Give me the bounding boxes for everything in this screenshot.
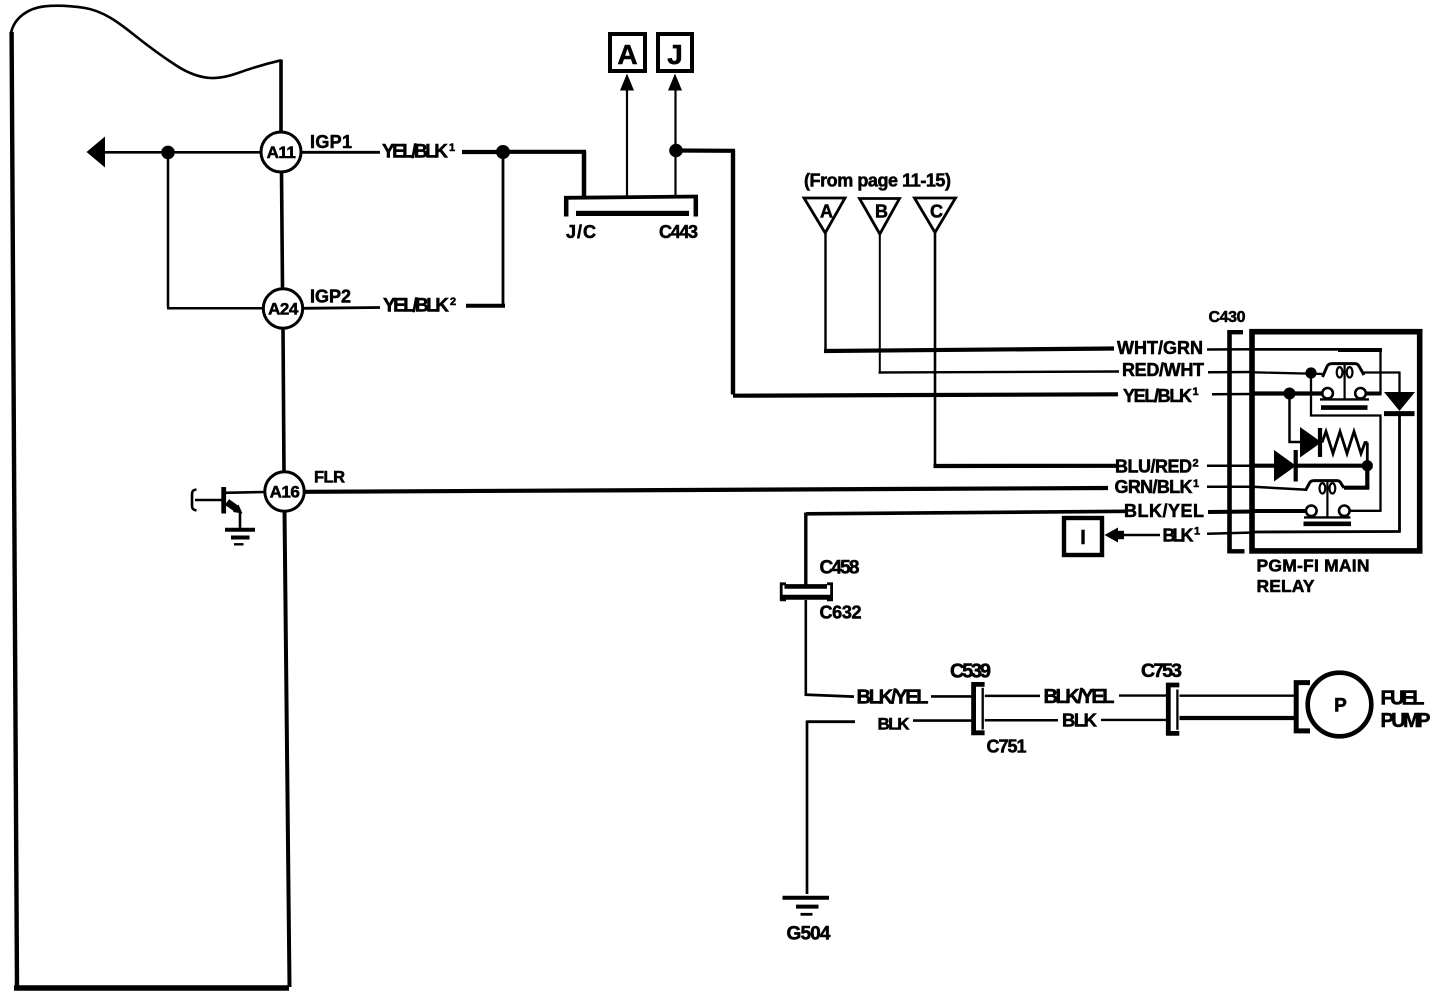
svg-text:PUMP: PUMP [1381, 710, 1431, 732]
svg-text:FUEL: FUEL [1381, 688, 1425, 710]
wire D3 cathode down to BLK1 row [1398, 415, 1401, 533]
svg-text:BLK: BLK [1163, 526, 1194, 546]
wire junction down to diode D1 [1288, 394, 1291, 444]
heavy relay internal wire YEL/BLK1 row [1253, 391, 1323, 395]
diode D3 (down) [1384, 392, 1415, 414]
wire YEL/BLK1 label to junction [462, 150, 500, 154]
svg-text:YEL/BLK: YEL/BLK [1123, 386, 1192, 406]
wire down from WHT/GRN to relay-1 contact [1379, 350, 1381, 394]
connector box I (destination) [1064, 518, 1102, 555]
svg-text:A16: A16 [270, 483, 300, 502]
resistor R1 zigzag [1322, 432, 1368, 454]
terminal A11 [261, 132, 301, 172]
svg-text:C632: C632 [820, 603, 862, 623]
junction dot coil-1 left [1305, 367, 1316, 378]
wire C753 to fuel pump (BLK/YEL) [1180, 695, 1297, 697]
relay-1 fixed contact bar [1320, 398, 1369, 400]
wire from arrow to terminal A11 [104, 151, 262, 154]
svg-text:BLU/RED: BLU/RED [1115, 457, 1192, 477]
wire from J/C up to box A [626, 89, 628, 196]
svg-text:J: J [667, 39, 683, 70]
heavy BLK/YEL wire from relay row to drop corner [806, 511, 1126, 514]
svg-text:C443: C443 [659, 222, 698, 242]
ground symbol G504 [783, 898, 830, 915]
svg-text:C539: C539 [950, 661, 991, 683]
svg-text:GRN/BLK: GRN/BLK [1115, 477, 1193, 497]
svg-text:A: A [617, 39, 637, 70]
svg-text:BLK: BLK [878, 715, 911, 734]
relay-2 coil [1306, 481, 1345, 494]
heavy wire junction to right corner [676, 148, 735, 153]
heavy YEL/BLK1 wire across to relay label [733, 394, 1118, 395]
inline connector C753 [1168, 685, 1179, 733]
connector C430 bracket [1230, 330, 1245, 554]
svg-text:1: 1 [1193, 386, 1199, 398]
svg-text:BLK/YEL: BLK/YEL [857, 687, 929, 709]
terminal A24 [263, 289, 302, 328]
off-page triangle C [915, 198, 956, 233]
svg-text:FLR: FLR [314, 469, 345, 487]
svg-text:A11: A11 [267, 143, 296, 162]
heavy wire down to YEL/BLK1 relay feed [731, 150, 735, 395]
svg-text:B: B [875, 202, 888, 222]
wire from triangle C down [934, 233, 937, 467]
wire emitter to ground [239, 511, 242, 528]
svg-text:C751: C751 [987, 737, 1027, 757]
svg-text:1: 1 [1193, 478, 1199, 490]
svg-text:2: 2 [1193, 458, 1199, 470]
transistor Q1 base input bracket [192, 490, 197, 511]
wire junction down and across (coil-1 left to relay-2 contact) [1310, 373, 1312, 417]
junction dot IGP1/IGP2 tie point [496, 145, 510, 159]
fuel pump P motor [1308, 673, 1372, 737]
svg-text:WHT/GRN: WHT/GRN [1117, 338, 1203, 358]
arrow pointing left on IGP1 row [87, 137, 106, 168]
svg-text:I: I [1080, 527, 1086, 549]
wire C539 to BLK label (pump side) [985, 719, 1058, 722]
wire resistor right down to junction [1366, 443, 1369, 463]
wire label to connector C753 [1101, 719, 1166, 721]
wire BLK down to ground G504 [806, 721, 809, 895]
vertical bus wire A24 to A16 [283, 327, 284, 473]
relay-1 movable contact heavy bar [1321, 405, 1368, 410]
svg-text:1: 1 [1194, 526, 1200, 538]
off-page triangle B [860, 199, 900, 235]
heavy BLU/RED2 wire to relay label [934, 464, 1118, 468]
relay internal wire WHT/GRN row [1253, 348, 1340, 351]
svg-text:C458: C458 [820, 558, 860, 579]
wire A24 to YEL/BLK2 label [302, 306, 380, 310]
svg-text:1: 1 [449, 142, 455, 154]
heavy wire junction to J/C drop [503, 150, 586, 154]
connector box J (destination) [658, 34, 692, 71]
relay internal wire BLK1 row [1253, 530, 1401, 533]
heavy FLR wire from A16 to GRN/BLK1 label [304, 488, 1108, 492]
svg-text:BLK/YEL: BLK/YEL [1044, 686, 1115, 708]
ECM box bottom edge wire [14, 985, 289, 990]
heavy relay internal wire BLK/YEL row [1253, 509, 1307, 513]
wire A11 to YEL/BLK1 label [301, 151, 380, 154]
vertical bus wire A11 to A24 [282, 171, 283, 289]
heavy stub to relay-1 right contact [1365, 392, 1382, 396]
wire from triangle A down [824, 233, 826, 351]
arrow up to box J [668, 74, 682, 91]
relay-2 contact circles [1306, 506, 1317, 517]
svg-text:IGP2: IGP2 [310, 287, 351, 307]
ECM box left edge wire [12, 32, 17, 988]
relay-2 fixed contact bar [1304, 516, 1351, 518]
heavy wire D2 to junction dot [1297, 464, 1368, 468]
svg-text:C430: C430 [1209, 309, 1246, 326]
wire junction down to IGP2 row [167, 152, 170, 308]
svg-text:(From page 11-15): (From page 11-15) [804, 171, 951, 191]
wire BLK label to connector C539 [913, 719, 972, 722]
wire from triangle B down [879, 234, 881, 373]
arrow up to box A [620, 74, 634, 91]
svg-text:J/C: J/C [566, 222, 596, 242]
relay internal wire GRN/BLK1 row to coil-2 left [1253, 487, 1307, 490]
transistor Q1 base bar [221, 487, 226, 514]
svg-text:BLK/YEL: BLK/YEL [1124, 501, 1204, 521]
ground symbol at transistor emitter [225, 530, 255, 545]
terminal A16 [265, 472, 304, 511]
wire stub YEL/BLK1 to relay [1212, 393, 1254, 396]
wire BLK/YEL label to connector C539 [931, 695, 972, 698]
wire stub RED/WHT to relay [1208, 371, 1254, 374]
wire stub BLK1 to relay [1207, 533, 1254, 534]
wire YEL/BLK2 label to corner [466, 304, 505, 308]
wire coil-1 right to diode D3 [1364, 371, 1401, 373]
svg-text:RELAY: RELAY [1257, 576, 1315, 596]
svg-text:IGP1: IGP1 [310, 132, 352, 152]
relay-1 armature link line [1343, 363, 1345, 399]
wire BLK1 label to arrow [1123, 534, 1160, 536]
relay-1 contact circles [1322, 388, 1333, 399]
relay-2 armature link line [1326, 481, 1328, 517]
wire bracket to transistor base [195, 499, 222, 502]
transistor Q1 collector wire to A16 [225, 491, 266, 494]
heavy wire down to connector C458 [804, 513, 807, 585]
heavy WHT/GRN wire to relay label [824, 349, 1114, 352]
wire C539 to BLK/YEL label (pump side) [985, 695, 1040, 698]
vertical bus wire above A11 [279, 60, 283, 134]
connector box A (destination) [610, 34, 645, 71]
wire across to terminal A24 [167, 307, 264, 310]
svg-text:C753: C753 [1141, 660, 1182, 682]
junction dot YEL/BLK1 row [1284, 388, 1296, 400]
svg-text:2: 2 [450, 296, 456, 308]
fuel pump connector bracket [1296, 683, 1310, 731]
junction connector J/C C443 bar [564, 196, 698, 217]
wire C632 down to BLK/YEL branch corner [804, 600, 807, 696]
junction dot on J wire [669, 144, 683, 158]
wire BLK row corner to label [807, 720, 855, 723]
ECM dashboard-fuse-box torn-edge wavy top line [11, 6, 281, 78]
wire up from IGP2 row to junction dot [502, 152, 505, 307]
diode D2 (right) [1274, 450, 1296, 482]
heavy wire C753 to fuel pump (BLK) [1180, 716, 1297, 720]
arrow into box I [1105, 528, 1119, 543]
svg-text:C: C [930, 202, 943, 222]
heavy wire drop down to junction connector J/C [582, 151, 587, 196]
transistor Q1 emitter with arrow [227, 502, 238, 510]
relay-2 movable contact heavy bar [1304, 521, 1352, 526]
wire from J/C up to box J [674, 89, 676, 196]
svg-text:RED/WHT: RED/WHT [1122, 360, 1204, 380]
svg-text:YEL/BLK: YEL/BLK [383, 296, 449, 317]
svg-text:PGM-FI MAIN: PGM-FI MAIN [1257, 556, 1370, 576]
inline connector C458/C632 [780, 584, 833, 600]
inline connector C539/C751 [974, 684, 985, 732]
wire corner to BLK/YEL label [805, 695, 855, 697]
svg-text:A24: A24 [268, 300, 299, 319]
junction dot BLU/RED2 node [1362, 460, 1373, 471]
diode D1 (right) [1300, 427, 1322, 458]
heavy wire stub BLK/YEL to relay [1208, 510, 1254, 515]
svg-text:P: P [1334, 696, 1347, 717]
PGM-FI main relay outline box [1252, 332, 1420, 551]
off-page triangle A [804, 198, 845, 233]
relay-1 coil [1323, 364, 1365, 378]
wire stub GRN/BLK1 to relay [1207, 486, 1254, 489]
svg-text:A: A [820, 202, 833, 222]
svg-text:G504: G504 [787, 924, 831, 945]
relay internal wire RED/WHT row to coil-1 [1253, 372, 1324, 374]
vertical bus wire below A16 to box bottom [285, 510, 290, 987]
wire label to connector C753 [1119, 694, 1166, 696]
junction dot on IGP1 row [161, 146, 175, 160]
RED/WHT wire to relay label [879, 372, 1120, 373]
wire stub BLU/RED2 to relay [1207, 465, 1254, 468]
heavy BLU/RED2 row wire to diode D2 [1253, 464, 1276, 468]
heavy wire junction down to coil-2 right [1365, 466, 1369, 488]
wire stub WHT/GRN to relay [1207, 348, 1254, 351]
svg-text:BLK: BLK [1062, 710, 1098, 731]
svg-text:YEL/BLK: YEL/BLK [382, 142, 448, 163]
